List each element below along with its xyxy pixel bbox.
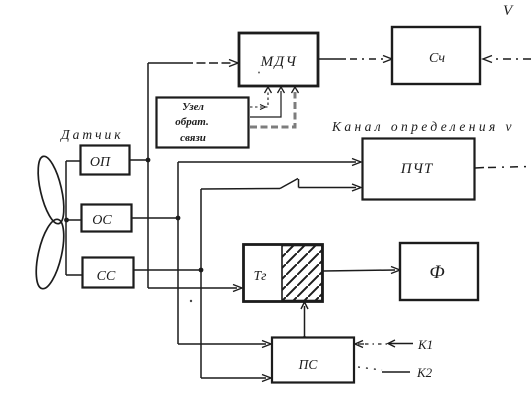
switch right post [298,179,300,188]
wire: СС output [134,269,201,271]
wire: Тг to Ф [323,270,395,271]
switch blade [280,179,298,189]
node: junction at ОС output [176,216,181,221]
node: ПС top junction [303,336,307,340]
block ПЧТ [363,139,475,200]
svg-text:связи: связи [180,132,206,144]
wire: ПС up to Тг bottom [304,306,306,337]
wire: switch feed left segment [201,188,280,191]
arrowhead into МДЧ [229,60,238,67]
arrowhead into Тг bottom [301,302,308,309]
arrowhead into Тг [233,285,242,292]
block Ф [400,243,478,300]
arrowhead fb2 into МДЧ [278,87,285,93]
arrowhead into ПС input 1 [262,341,271,348]
wire: bus to ОС [66,219,81,221]
arrowhead into ПС input 2 [262,375,271,382]
block Узел обратной связи [157,98,249,148]
wire: external dash-dot into Сч right side [494,58,531,60]
svg-text:Ф: Ф [429,262,444,283]
wire: МДЧ to Сч (dash-dot with arrow) [318,58,346,60]
speck inside МДЧ [258,72,260,74]
wire: sensor left bus vertical [65,161,67,275]
svg-text:Канал определения v: Канал определения v [331,119,515,134]
wire: to ПС input 1 [178,343,266,345]
arrowhead fb3 into МДЧ [292,87,299,93]
sensor figure-eight coil (Датчик) [31,154,69,291]
svg-text:V: V [503,3,514,19]
svg-text:ПЧТ: ПЧТ [400,161,434,177]
svg-text:СС: СС [97,269,116,284]
wire: to ПЧТ input 1 [178,161,356,163]
arrowhead into ПЧТ input 1 [352,159,361,166]
wire: bus to СС [66,274,82,276]
svg-text:Датчик: Датчик [59,127,124,142]
wire: down to Тг input [148,287,237,289]
block ОС [82,205,132,232]
arrowhead fb1 into МДЧ [265,87,272,93]
svg-text:Тг: Тг [254,268,267,283]
node: junction СС/riser [199,268,204,273]
wire: riser x178 [177,162,179,344]
feedback line 1 (dashed) [250,91,268,107]
block ОП [81,146,130,175]
block ПС [272,338,354,383]
wire: ОП output to riser [130,159,148,161]
arrow К1 outer [388,340,395,347]
speck near СС/Тг [190,300,192,302]
arrowhead into Ф [391,267,400,274]
arrowhead К1 into ПС [355,341,363,348]
svg-text:Узел: Узел [182,101,204,113]
wire: down to ПС input 2 [201,377,266,379]
block Сч [392,27,480,84]
svg-text:обрат.: обрат. [175,116,208,128]
node: junction at ОП output [146,158,151,163]
wire: switch to ПЧТ input 2 [299,187,357,189]
svg-text:МДЧ: МДЧ [260,54,298,70]
feedback line 2 (solid) [250,91,281,117]
wire: bus to ОП [66,160,80,162]
wire: ПЧТ output dash-dot [475,167,484,170]
svg-text:ОС: ОС [92,213,112,228]
block МДЧ [239,33,318,86]
node: sensor crossing junction [64,218,69,223]
svg-text:ПС: ПС [298,357,319,372]
arrowhead into ПЧТ input 2 [352,184,361,191]
svg-text:К2: К2 [416,365,433,380]
wire К2: dots + line [358,367,382,370]
feedback line 3 (thick grey dashed) [250,92,295,127]
svg-text:Сч: Сч [429,51,445,66]
svg-text:К1: К1 [417,337,433,352]
wire К1: dash-dot with double arrow [358,343,364,345]
wire: riser x201 [200,189,202,378]
block Тг (trigger with hatched half) [244,245,323,302]
wire: riser x149 from МДЧ feed down to Тг feed [147,63,149,288]
block СС [83,258,134,288]
svg-text:ОП: ОП [90,155,111,170]
wire: ОС output [132,217,178,219]
wire: to МДЧ input [148,62,184,64]
arrowhead into Сч right [483,56,492,63]
arrowhead into Сч [383,56,392,63]
